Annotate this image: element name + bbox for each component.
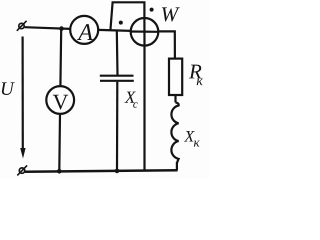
wire resistor to inductor (174, 95, 176, 103)
wire inductor to bottom (176, 162, 178, 170)
wire wattmeter to top right corner (158, 31, 175, 58)
wire voltmeter branch top (59, 29, 62, 86)
wire capacitor branch top (116, 30, 119, 75)
label W (162, 7, 180, 21)
polarity dot voltage coil (150, 8, 154, 12)
terminal input top (17, 21, 27, 31)
wattmeter W1 (131, 18, 159, 46)
voltage arrow U (20, 37, 25, 159)
wire top left (25, 27, 71, 29)
node capacitor bottom (115, 169, 120, 174)
label U (2, 82, 15, 95)
node voltmeter tap (59, 26, 64, 31)
node voltmeter bottom (57, 169, 62, 174)
label Xc (124, 92, 135, 103)
ammeter A1 (70, 16, 98, 44)
polarity dot current coil (119, 21, 123, 25)
bottom wire (25, 170, 178, 171)
wire wattmeter voltage coil to bottom (143, 46, 145, 171)
resistor Rk (169, 59, 182, 95)
terminal input bottom (17, 165, 27, 175)
wire ammeter to wattmeter (98, 30, 131, 31)
voltmeter V1 (46, 86, 74, 114)
label Rk (189, 65, 202, 79)
label Xk (184, 131, 195, 141)
inductor Xk (171, 103, 178, 164)
wire capacitor branch bottom (116, 82, 119, 171)
wire voltmeter branch bottom (58, 114, 61, 171)
capacitor Xc (100, 76, 134, 81)
wattmeter voltage-coil loop (box) (110, 2, 144, 30)
